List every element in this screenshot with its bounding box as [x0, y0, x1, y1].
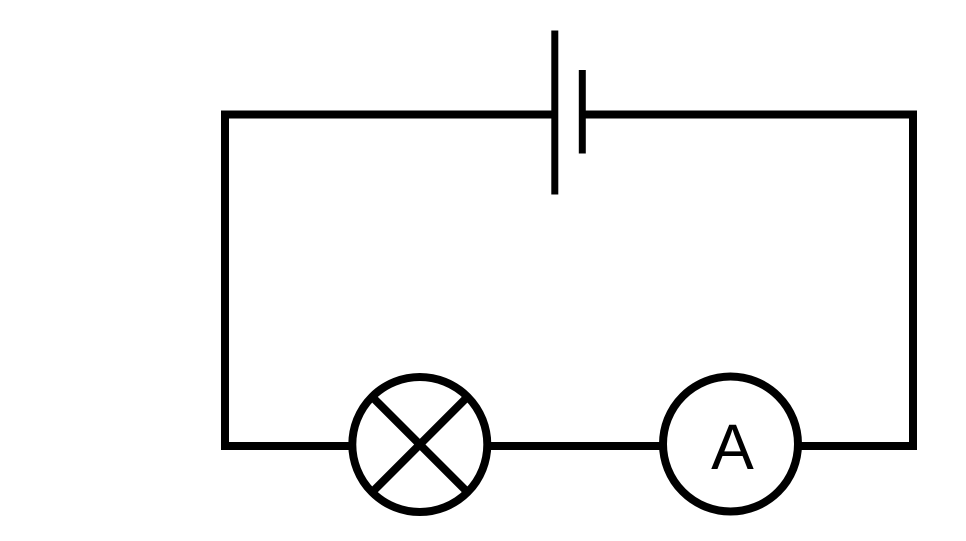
battery cell B1: positive plate (long): [551, 31, 558, 195]
wire: bottom right segment (ammeter to right corner): [798, 442, 917, 450]
wire: bottom middle segment (lamp to ammeter): [487, 442, 663, 450]
lamp L1: cross diagonal /: [372, 397, 467, 492]
wire: top horizontal, right segment from battery negative plate: [582, 111, 917, 119]
lamp L1: circle: [352, 377, 487, 512]
svg-text:A: A: [711, 411, 754, 483]
battery cell B1: negative plate (short): [579, 70, 586, 154]
wire: bottom left segment (left corner to lamp): [221, 442, 353, 450]
wire: right vertical side: [909, 111, 917, 451]
wire: left vertical side: [221, 111, 229, 451]
wire: top horizontal, left segment to battery positive plate: [221, 111, 555, 119]
lamp L1: cross diagonal \: [372, 397, 467, 492]
ammeter M1: circle: [663, 377, 798, 512]
